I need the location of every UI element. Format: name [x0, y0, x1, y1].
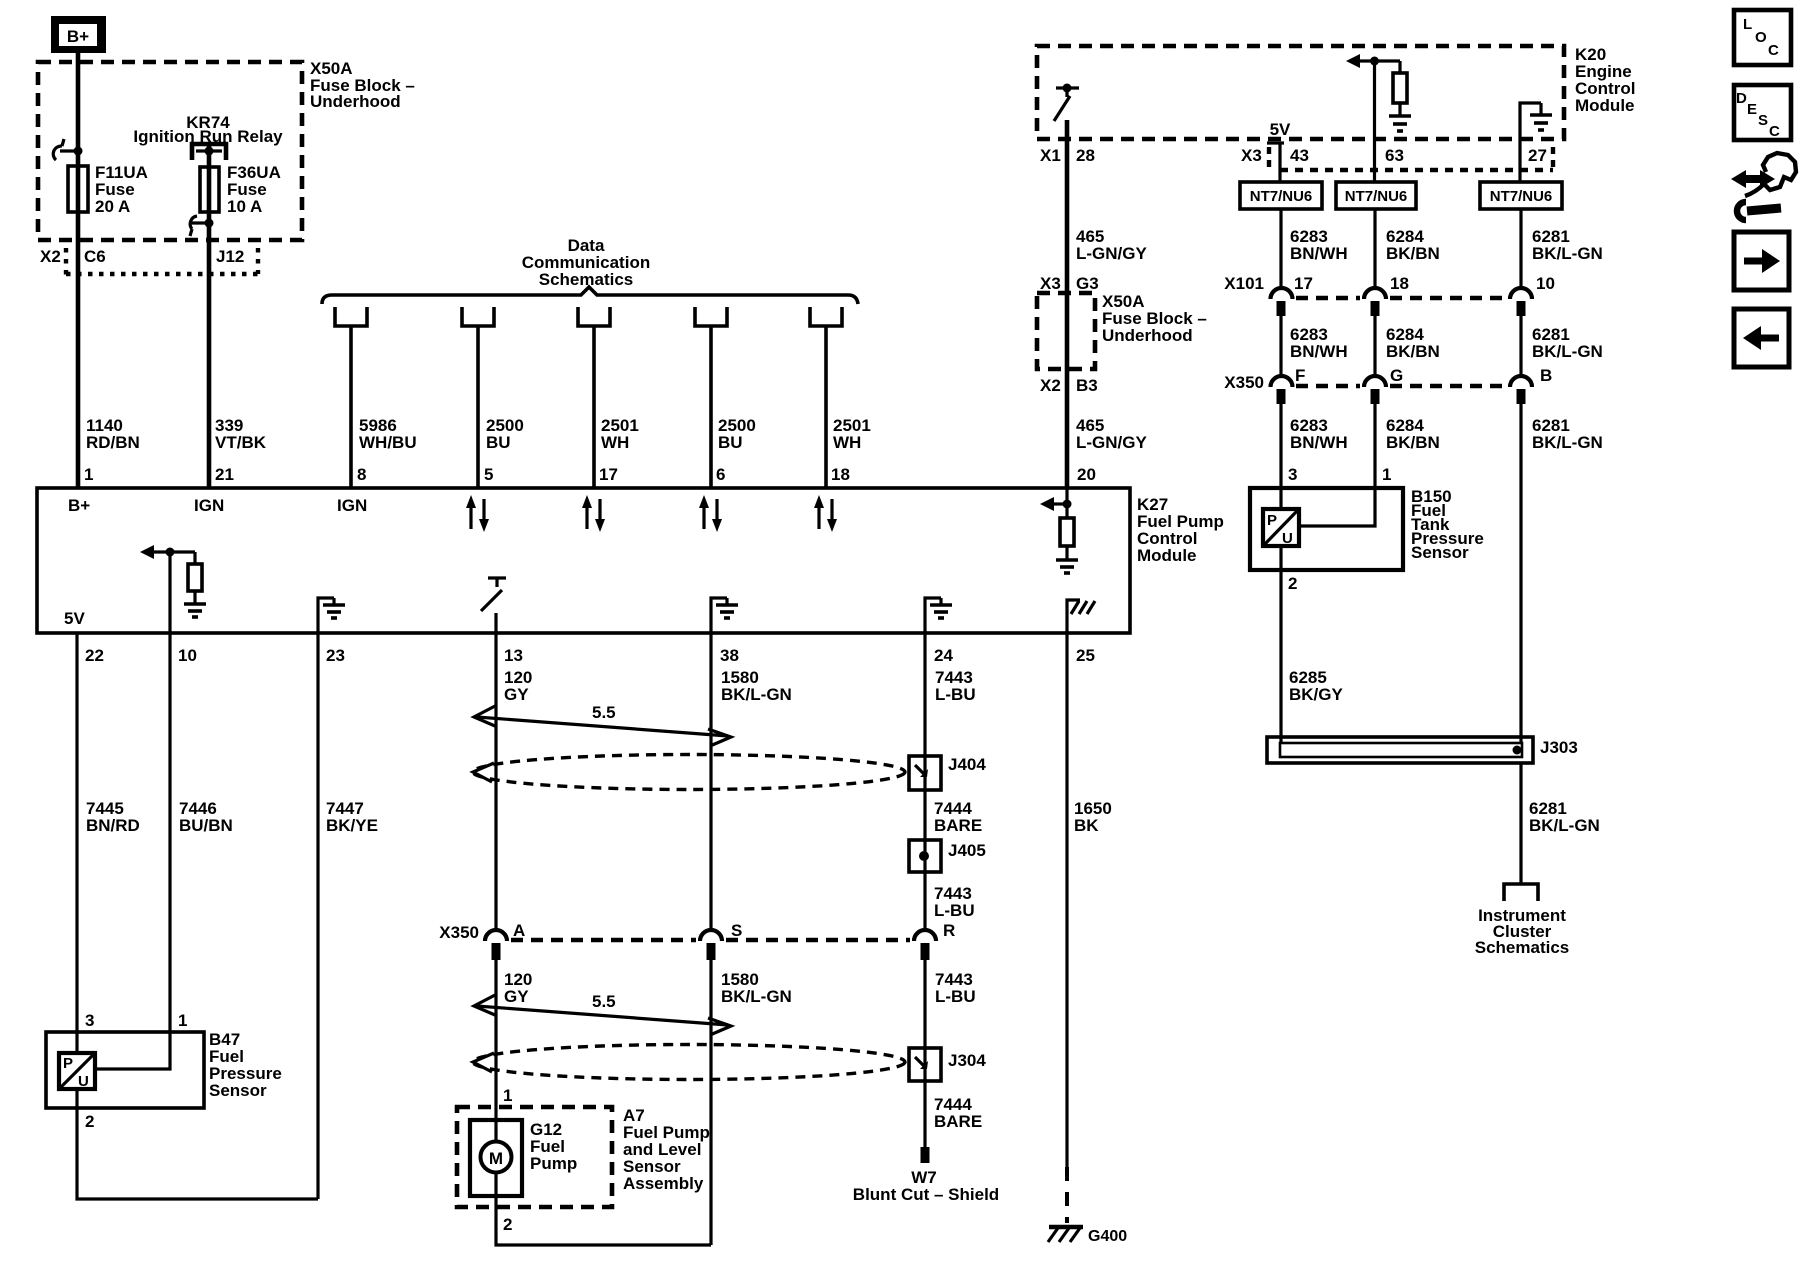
svg-text:R: R: [943, 921, 955, 940]
svg-text:21: 21: [215, 465, 234, 484]
svg-text:2: 2: [503, 1215, 512, 1234]
svg-text:17: 17: [1294, 274, 1313, 293]
svg-text:L-GN/GY: L-GN/GY: [1076, 244, 1147, 263]
svg-text:L-GN/GY: L-GN/GY: [1076, 433, 1147, 452]
svg-text:A: A: [513, 921, 525, 940]
svg-text:17: 17: [599, 465, 618, 484]
svg-text:NT7/NU6: NT7/NU6: [1345, 188, 1408, 205]
svg-text:BK/L-GN: BK/L-GN: [1532, 342, 1603, 361]
svg-text:P: P: [63, 1055, 73, 1072]
svg-text:22: 22: [85, 646, 104, 665]
svg-text:BK/GY: BK/GY: [1289, 685, 1344, 704]
svg-text:X3: X3: [1241, 146, 1262, 165]
svg-text:5: 5: [484, 465, 493, 484]
svg-text:BN/RD: BN/RD: [86, 816, 140, 835]
svg-text:P: P: [1267, 512, 1277, 529]
svg-text:B+: B+: [67, 27, 89, 46]
svg-text:L-BU: L-BU: [935, 987, 976, 1006]
svg-text:BK/YE: BK/YE: [326, 816, 378, 835]
svg-text:J405: J405: [948, 841, 986, 860]
svg-text:Sensor: Sensor: [209, 1081, 267, 1100]
svg-text:L-BU: L-BU: [934, 901, 975, 920]
svg-text:10 A: 10 A: [227, 197, 262, 216]
svg-text:Underhood: Underhood: [310, 92, 401, 111]
svg-text:Blunt Cut – Shield: Blunt Cut – Shield: [853, 1185, 999, 1204]
svg-text:G3: G3: [1076, 274, 1099, 293]
svg-text:BK: BK: [1074, 816, 1099, 835]
svg-text:20 A: 20 A: [95, 197, 130, 216]
svg-text:1: 1: [1382, 465, 1391, 484]
svg-text:C: C: [1769, 123, 1780, 140]
svg-text:Pump: Pump: [530, 1154, 577, 1173]
svg-text:BARE: BARE: [934, 816, 982, 835]
svg-text:IGN: IGN: [337, 496, 367, 515]
svg-text:63: 63: [1385, 146, 1404, 165]
svg-text:3: 3: [1288, 465, 1297, 484]
svg-text:1: 1: [84, 465, 93, 484]
svg-text:5.5: 5.5: [592, 703, 616, 722]
svg-text:Sensor: Sensor: [1411, 543, 1469, 562]
svg-text:X1: X1: [1040, 146, 1061, 165]
svg-text:RD/BN: RD/BN: [86, 433, 140, 452]
svg-text:5V: 5V: [64, 609, 85, 628]
svg-text:G: G: [1390, 366, 1403, 385]
svg-text:B3: B3: [1076, 376, 1098, 395]
svg-text:BK/L-GN: BK/L-GN: [1532, 433, 1603, 452]
svg-text:U: U: [1282, 530, 1293, 547]
svg-text:GY: GY: [504, 685, 529, 704]
svg-text:BK/L-GN: BK/L-GN: [1529, 816, 1600, 835]
svg-text:BN/WH: BN/WH: [1290, 342, 1348, 361]
svg-text:L: L: [1743, 16, 1752, 33]
svg-text:25: 25: [1076, 646, 1095, 665]
svg-text:B+: B+: [68, 496, 90, 515]
svg-text:BK/L-GN: BK/L-GN: [721, 685, 792, 704]
svg-text:X2: X2: [40, 247, 61, 266]
svg-text:BK/BN: BK/BN: [1386, 244, 1440, 263]
svg-text:10: 10: [178, 646, 197, 665]
svg-text:D: D: [1736, 90, 1747, 107]
svg-text:1: 1: [178, 1011, 187, 1030]
svg-text:C6: C6: [84, 247, 106, 266]
svg-text:Module: Module: [1575, 96, 1635, 115]
svg-text:B: B: [1540, 366, 1552, 385]
svg-text:38: 38: [720, 646, 739, 665]
svg-text:24: 24: [934, 646, 953, 665]
svg-text:IGN: IGN: [194, 496, 224, 515]
svg-text:M: M: [489, 1149, 503, 1168]
svg-text:G400: G400: [1088, 1228, 1127, 1245]
svg-text:BK/BN: BK/BN: [1386, 342, 1440, 361]
svg-text:J404: J404: [948, 755, 986, 774]
svg-text:BN/WH: BN/WH: [1290, 433, 1348, 452]
svg-text:O: O: [1755, 29, 1767, 46]
svg-text:WH: WH: [601, 433, 629, 452]
svg-text:S: S: [731, 921, 742, 940]
svg-text:X3: X3: [1040, 274, 1061, 293]
svg-text:Underhood: Underhood: [1102, 326, 1193, 345]
svg-text:Schematics: Schematics: [539, 270, 634, 289]
svg-text:NT7/NU6: NT7/NU6: [1250, 188, 1313, 205]
svg-text:5V: 5V: [1270, 120, 1291, 139]
svg-text:C: C: [1768, 42, 1779, 59]
svg-text:BK/L-GN: BK/L-GN: [721, 987, 792, 1006]
svg-text:13: 13: [504, 646, 523, 665]
svg-text:28: 28: [1076, 146, 1095, 165]
svg-text:8: 8: [357, 465, 366, 484]
svg-text:X101: X101: [1224, 274, 1264, 293]
svg-text:E: E: [1747, 101, 1757, 118]
svg-text:GY: GY: [504, 987, 529, 1006]
svg-text:2: 2: [1288, 574, 1297, 593]
svg-text:U: U: [78, 1073, 89, 1090]
svg-text:Assembly: Assembly: [623, 1174, 704, 1193]
svg-text:J304: J304: [948, 1051, 986, 1070]
svg-text:BU/BN: BU/BN: [179, 816, 233, 835]
svg-text:3: 3: [85, 1011, 94, 1030]
svg-text:43: 43: [1290, 146, 1309, 165]
svg-text:S: S: [1758, 112, 1768, 129]
svg-text:5.5: 5.5: [592, 992, 616, 1011]
svg-text:20: 20: [1077, 465, 1096, 484]
svg-text:2: 2: [85, 1112, 94, 1131]
svg-text:1: 1: [503, 1086, 512, 1105]
svg-text:NT7/NU6: NT7/NU6: [1490, 188, 1553, 205]
svg-text:BARE: BARE: [934, 1112, 982, 1131]
svg-text:F: F: [1295, 366, 1305, 385]
svg-text:BU: BU: [486, 433, 511, 452]
svg-text:WH/BU: WH/BU: [359, 433, 417, 452]
svg-text:BU: BU: [718, 433, 743, 452]
svg-text:J303: J303: [1540, 738, 1578, 757]
svg-text:BK/BN: BK/BN: [1386, 433, 1440, 452]
svg-text:J12: J12: [216, 247, 244, 266]
svg-text:VT/BK: VT/BK: [215, 433, 267, 452]
svg-text:WH: WH: [833, 433, 861, 452]
svg-text:6: 6: [716, 465, 725, 484]
svg-text:18: 18: [831, 465, 850, 484]
svg-text:18: 18: [1390, 274, 1409, 293]
svg-text:X350: X350: [1224, 373, 1264, 392]
svg-text:BK/L-GN: BK/L-GN: [1532, 244, 1603, 263]
svg-text:L-BU: L-BU: [935, 685, 976, 704]
svg-text:Module: Module: [1137, 546, 1197, 565]
svg-text:27: 27: [1528, 146, 1547, 165]
svg-text:X350: X350: [439, 923, 479, 942]
svg-text:Schematics: Schematics: [1475, 938, 1570, 957]
svg-text:BN/WH: BN/WH: [1290, 244, 1348, 263]
svg-text:23: 23: [326, 646, 345, 665]
svg-text:X2: X2: [1040, 376, 1061, 395]
svg-text:10: 10: [1536, 274, 1555, 293]
